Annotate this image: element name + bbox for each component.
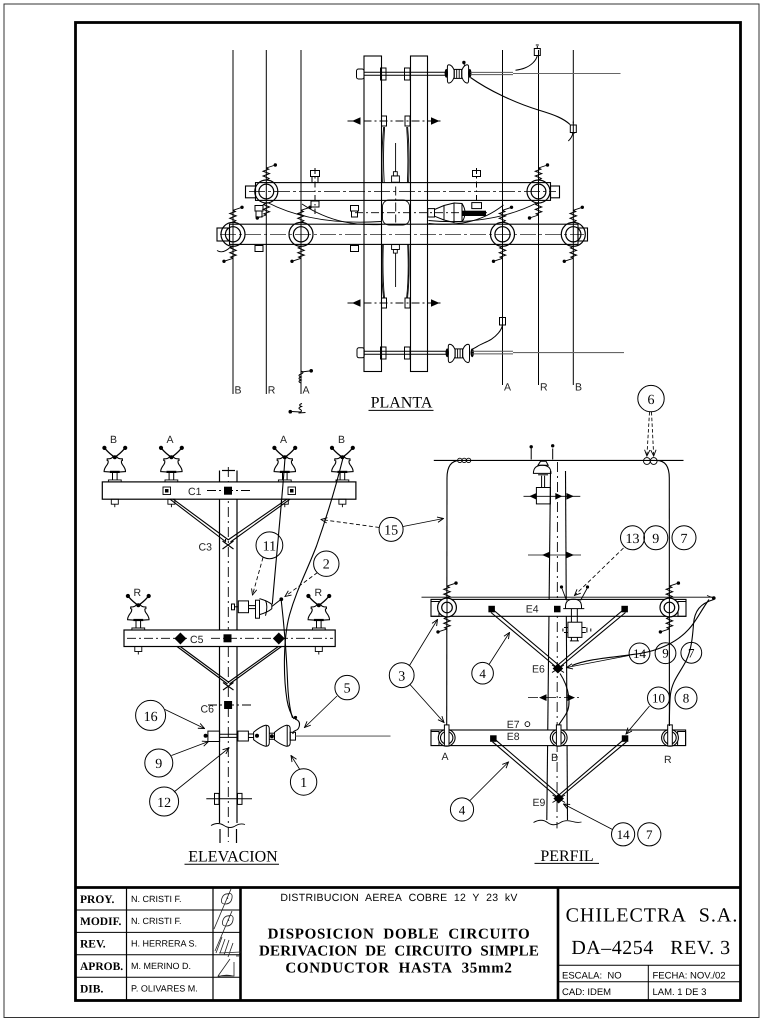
svg-text:B: B [338, 434, 345, 446]
svg-text:B: B [575, 382, 582, 394]
svg-text:B: B [551, 752, 558, 764]
svg-text:CAD: IDEM: CAD: IDEM [562, 987, 611, 998]
svg-text:FECHA: NOV./02: FECHA: NOV./02 [653, 971, 726, 982]
svg-text:8: 8 [683, 691, 690, 706]
svg-text:E8: E8 [507, 731, 520, 743]
svg-text:7: 7 [646, 827, 653, 842]
svg-text:E4: E4 [526, 604, 539, 616]
svg-text:C5: C5 [190, 634, 204, 646]
svg-text:14: 14 [633, 646, 647, 661]
svg-text:B: B [235, 385, 242, 397]
svg-text:15: 15 [384, 523, 398, 538]
svg-text:E7: E7 [507, 719, 520, 731]
svg-text:4: 4 [479, 666, 486, 681]
svg-text:CONDUCTOR HASTA 35mm2: CONDUCTOR HASTA 35mm2 [285, 961, 512, 977]
svg-text:DISTRIBUCION AEREA COBRE 12: DISTRIBUCION AEREA COBRE 12 Y 23 kV [280, 892, 517, 904]
svg-text:ESCALA: NO: ESCALA: NO [562, 971, 622, 982]
svg-text:13: 13 [626, 532, 640, 547]
svg-text:11: 11 [263, 539, 276, 554]
svg-text:DISPOSICION DOBLE CIRCUITO: DISPOSICION DOBLE CIRCUITO [268, 927, 531, 943]
svg-text:6: 6 [648, 393, 655, 408]
svg-text:R: R [664, 754, 672, 766]
svg-text:9: 9 [662, 646, 669, 661]
svg-text:R: R [540, 382, 548, 394]
svg-text:B: B [110, 434, 117, 446]
svg-text:M. MERINO D.: M. MERINO D. [131, 961, 191, 971]
svg-text:12: 12 [157, 796, 171, 811]
svg-text:LAM. 1 DE 3: LAM. 1 DE 3 [653, 987, 707, 998]
svg-text:R: R [315, 587, 323, 599]
svg-text:5: 5 [344, 682, 351, 697]
svg-text:3: 3 [398, 669, 405, 684]
svg-text:1: 1 [300, 776, 307, 791]
svg-text:A: A [303, 385, 310, 397]
svg-text:N. CRISTI F.: N. CRISTI F. [131, 894, 182, 904]
svg-text:DIB.: DIB. [80, 983, 103, 995]
svg-text:9: 9 [652, 532, 659, 547]
svg-text:9: 9 [155, 757, 162, 772]
svg-text:REV.: REV. [80, 939, 106, 951]
svg-text:R: R [268, 385, 276, 397]
svg-text:7: 7 [681, 532, 688, 547]
svg-text:E9: E9 [533, 797, 546, 809]
svg-text:N. CRISTI F.: N. CRISTI F. [131, 916, 182, 926]
svg-text:PROY.: PROY. [80, 894, 115, 906]
svg-text:DA–4254 REV. 3: DA–4254 REV. 3 [571, 937, 730, 959]
svg-text:14: 14 [617, 827, 631, 842]
svg-text:10: 10 [652, 691, 665, 706]
svg-text:MODIF.: MODIF. [80, 916, 122, 928]
svg-text:16: 16 [144, 710, 158, 725]
svg-text:PERFIL: PERFIL [540, 848, 593, 865]
svg-text:ELEVACION: ELEVACION [188, 848, 278, 865]
svg-text:A: A [504, 382, 511, 394]
svg-text:H. HERRERA S.: H. HERRERA S. [131, 939, 197, 949]
svg-text:C6: C6 [201, 704, 215, 716]
svg-text:C3: C3 [199, 542, 213, 554]
svg-text:P. OLIVARES M.: P. OLIVARES M. [131, 983, 198, 993]
svg-text:E6: E6 [532, 664, 545, 676]
svg-text:C1: C1 [188, 486, 202, 498]
svg-text:R: R [134, 587, 142, 599]
svg-text:A: A [442, 751, 449, 763]
svg-text:2: 2 [323, 558, 330, 573]
svg-text:7: 7 [688, 645, 695, 660]
svg-text:DERIVACION DE CIRCUITO SIMP: DERIVACION DE CIRCUITO SIMPLE [259, 944, 539, 960]
svg-text:PLANTA: PLANTA [371, 395, 433, 412]
svg-text:APROB.: APROB. [80, 961, 123, 973]
svg-text:4: 4 [459, 802, 466, 817]
svg-text:A: A [280, 434, 287, 446]
svg-text:A: A [167, 434, 174, 446]
svg-text:CHILECTRA S.A.: CHILECTRA S.A. [566, 905, 739, 927]
